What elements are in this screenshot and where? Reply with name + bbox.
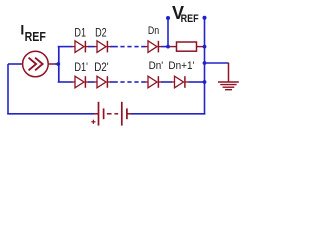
wire: top rail segment from middle vertical to D1 xyxy=(58,46,73,48)
wire: bottom row segment after D2' xyxy=(110,81,118,83)
svg-text:D2': D2' xyxy=(94,62,109,74)
wire: top rail segment before Dn xyxy=(141,46,145,48)
terminal dot V_REF left xyxy=(166,16,170,20)
ground symbol xyxy=(218,63,239,90)
current source I_REF (circle with double chevron) xyxy=(20,51,56,77)
wire: bottom rail left segment xyxy=(7,113,94,115)
svg-text:REF: REF xyxy=(25,29,46,44)
wire: middle vertical between diode rows xyxy=(58,47,60,82)
svg-text:D1: D1 xyxy=(74,27,86,39)
junction node at current source output xyxy=(56,62,60,66)
junction node bottom row / right rail xyxy=(203,80,207,84)
diode Dn' xyxy=(145,76,162,88)
svg-text:D2: D2 xyxy=(95,27,107,39)
wire: right vertical rail xyxy=(204,18,206,115)
wire: bottom row segment Dn+1' to right rail xyxy=(189,81,205,83)
wire: current source right lead xyxy=(55,63,59,65)
svg-text:REF: REF xyxy=(181,13,199,25)
wire: bottom row dashed continuation xyxy=(120,81,138,83)
diode D2 xyxy=(94,41,111,53)
svg-text:Dn: Dn xyxy=(148,25,159,37)
svg-text:Dn+1': Dn+1' xyxy=(168,60,194,72)
svg-text:D1': D1' xyxy=(74,62,88,74)
label I_REF xyxy=(20,22,45,45)
diode D1' xyxy=(72,76,89,88)
wire: ground branch horizontal xyxy=(205,62,229,64)
label V_REF xyxy=(172,3,199,25)
terminal dot V_REF right xyxy=(203,16,207,20)
junction node top rail / left probe xyxy=(166,45,170,49)
battery B1 (multi-cell with dashes) xyxy=(94,102,132,126)
wire: bottom row segment before Dn' xyxy=(141,81,145,83)
diode Dn xyxy=(145,41,162,53)
diode Dn+1' xyxy=(172,76,189,88)
junction node top rail / right rail xyxy=(203,45,207,49)
wire: top rail segment D1 to D2 xyxy=(88,46,95,48)
wire: bottom diode row from middle vertical to D1' xyxy=(58,81,73,83)
wire: bottom row segment D1' to D2' xyxy=(88,81,95,83)
wire: bottom row segment Dn' to Dn+1' xyxy=(161,81,172,83)
svg-text:Dn': Dn' xyxy=(149,60,164,72)
wire: left vertical rail xyxy=(7,64,9,114)
battery plus sign xyxy=(91,120,95,124)
diode D1 xyxy=(72,41,89,53)
diode D2' xyxy=(94,76,111,88)
wire: current source left lead xyxy=(8,63,21,65)
wire: bottom rail right segment xyxy=(131,113,205,115)
wire: top rail dashed continuation xyxy=(120,46,138,48)
junction node ground branch xyxy=(203,61,207,65)
resistor R (box) with leads xyxy=(168,42,205,51)
wire: top rail segment Dn to node xyxy=(161,46,168,48)
wire: V_REF left probe xyxy=(167,18,169,47)
wire: top rail segment after D2 xyxy=(110,46,118,48)
